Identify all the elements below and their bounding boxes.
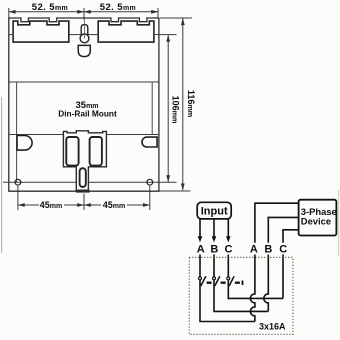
wire breaker A input [199,255,201,278]
3-Phase Device box [299,200,337,236]
dimension line 116mm [182,18,184,190]
dashed breaker box [189,257,293,334]
terminal cover left [13,21,69,42]
svg-text:45mm: 45mm [103,200,125,210]
clip foot [76,190,90,193]
wire A2 with hops [250,255,255,322]
hole extension right [149,186,151,210]
breaker pole A [199,276,212,286]
scan artifact right border [338,190,340,256]
svg-text:Device: Device [301,216,331,227]
svg-text:B: B [264,244,272,256]
svg-text:C: C [225,244,233,256]
inner wall left [16,82,18,182]
clip window left [66,137,78,166]
extension 106 bottom [153,181,177,183]
dimension centre extension line [83,8,85,20]
extension 116 top [160,17,192,19]
extension 116 bottom [159,190,191,192]
scan artifact left border [1,97,3,253]
wire input A [199,219,201,237]
hole extension left [17,186,19,210]
svg-text:C: C [279,244,287,256]
side tab right [142,137,157,147]
svg-text:A: A [197,244,205,256]
side tab left [17,136,32,151]
wire input C [227,219,229,237]
wire B2 with hop [264,255,269,312]
keyhole centre line [83,20,85,38]
linkage tick [242,281,244,286]
wire breaker A output [200,280,255,322]
svg-text:A: A [250,244,258,256]
terminal cover right [98,21,154,42]
wire breaker C output [228,280,283,299]
Input box [197,202,231,219]
breaker pole B [213,276,226,286]
clip window right [90,137,102,166]
wire device C [283,230,299,243]
dimension line 106mm [167,35,169,182]
wire breaker B output [214,280,268,312]
screw keyhole circle [80,34,89,43]
bottom hole line [3,181,153,183]
dimension 52.5mm left extension line [8,8,10,18]
wire device A [255,203,299,243]
extension 106 top [159,34,177,36]
svg-text:Din-Rail Mount: Din-Rail Mount [58,108,117,118]
svg-text:52. 5mm: 52. 5mm [100,2,136,13]
arrowheads input wires [198,236,231,242]
dimension line 45mm [18,204,39,206]
svg-text:Input: Input [201,206,228,218]
wire breaker C input [227,255,229,278]
centre extension bottom [83,194,85,211]
wire input B [213,219,215,237]
mounting hole right [147,179,153,185]
body split line [9,34,159,36]
wire device B [268,217,298,242]
svg-text:B: B [210,244,218,256]
device outline [9,18,159,191]
panel line upper [9,81,159,83]
wire breaker B input [213,255,215,278]
svg-text:106mm: 106mm [170,96,180,124]
screw keyhole slot [81,25,88,35]
inner wall right [151,82,153,134]
centre tab [78,45,90,56]
din-rail clip outline [63,131,106,190]
dimension 52.5mm right extension line [157,8,159,18]
panel line lower [9,134,159,136]
dimension arrowheads [9,10,185,207]
svg-text:52. 5mm: 52. 5mm [32,2,68,13]
mounting hole left [15,179,21,185]
svg-text:3x16A: 3x16A [259,321,286,331]
dimension line 52.5mm [9,11,158,13]
wire C2 [282,255,284,299]
svg-text:45mm: 45mm [40,200,62,210]
breaker pole C [227,276,240,286]
clip slot [80,168,86,187]
svg-text:116mm: 116mm [186,90,196,117]
